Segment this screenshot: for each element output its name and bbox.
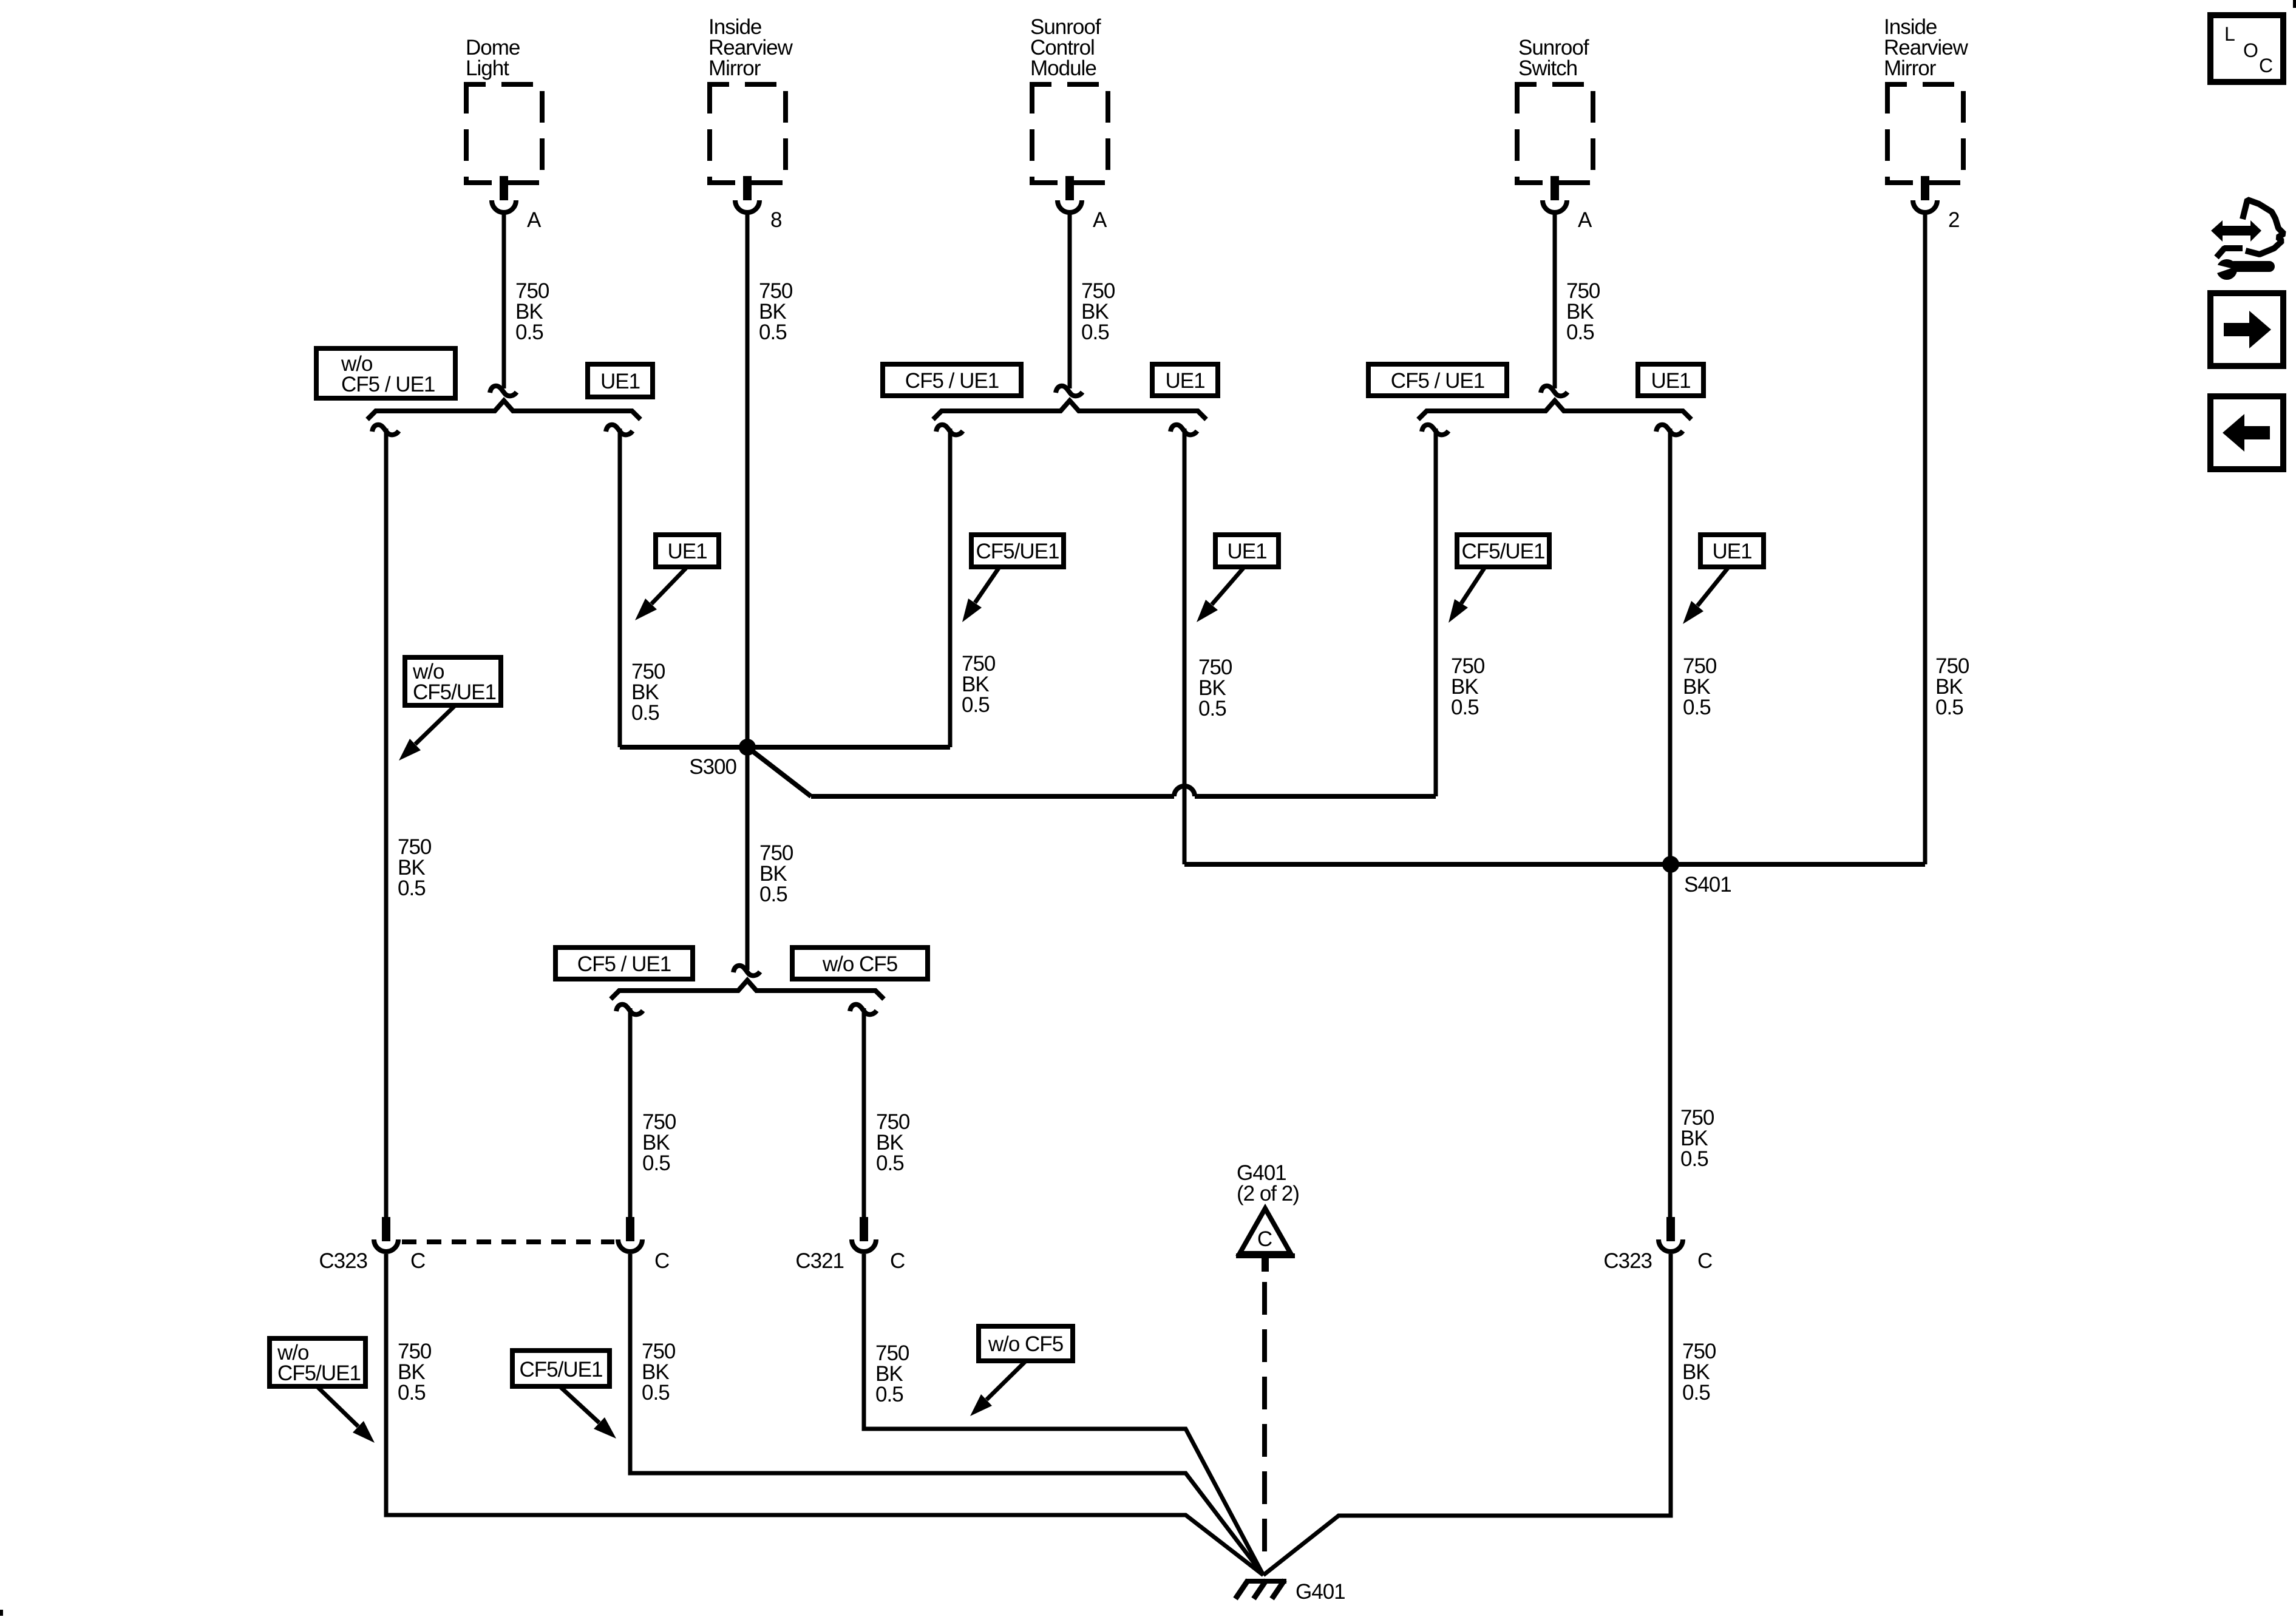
svg-text:0.5: 0.5 [759,320,787,344]
wire junction line from diagonal to SS left branch with hop over SCM right branch [811,786,1436,796]
svg-text:0.5: 0.5 [631,701,659,725]
label 750 BK 0.5 on SCM right branch [1198,656,1232,720]
option box CF5 / UE1 (split2 left) [555,947,693,979]
connector pin 8 of Inside Rearview Mirror [735,176,781,232]
svg-text:A: A [527,208,542,232]
wire Dome Light left branch down to C323 [384,429,389,1217]
hook of SCM right branch [1170,425,1197,435]
options brace under Dome Light [367,401,640,419]
svg-text:UE1: UE1 [1712,540,1751,563]
wire 750 BK 0.5 from Dome Light pin A [504,214,549,388]
wire SS left branch down to junction line [1434,429,1438,796]
label 750 BK 0.5 below S300 [759,841,793,906]
wire from Dome Light right branch to SCM left branch through S300 [620,745,950,750]
label 750 BK 0.5 on SCM left branch [962,652,996,717]
connector pin A of Sunroof Control Module [1058,176,1107,232]
callout box CF5/UE1 pointing to SS left branch [1449,535,1549,623]
svg-text:C: C [654,1249,669,1273]
splice S401 [1662,856,1731,897]
callout box UE1 pointing to Dome Light right branch [635,535,719,620]
svg-text:0.5: 0.5 [1198,697,1226,720]
hook of split2 left branch [616,1005,643,1015]
wire 750 BK 0.5 from Inside Rearview Mirror pin 2 down to S401 line [1925,214,1969,864]
svg-text:CF5 / UE1: CF5 / UE1 [341,373,435,396]
svg-text:0.5: 0.5 [759,883,787,906]
label 750 BK 0.5 on SS left branch [1451,654,1485,719]
svg-text:CF5 / UE1: CF5 / UE1 [905,369,999,393]
label 750 BK 0.5 on SS right branch [1683,654,1717,719]
navigation box arrow left [2210,396,2283,469]
wire diagonal from S300 to junction line [747,747,811,796]
svg-text:w/o CF5: w/o CF5 [988,1332,1063,1356]
svg-text:C: C [1697,1249,1712,1273]
svg-text:0.5: 0.5 [515,320,543,344]
wire 750 BK 0.5 from Sunroof Control Module pin A [1070,214,1115,388]
svg-text:0.5: 0.5 [1451,696,1479,719]
callout box w/o CF5/UE1 pointing to Dome Light left branch [399,657,501,761]
wire SCM left branch down to S300 line [948,429,953,747]
svg-text:w/o CF5: w/o CF5 [822,952,897,976]
svg-text:A: A [1093,208,1107,232]
wire Dome Light right branch down to S300 line [618,429,622,747]
svg-text:CF5/UE1: CF5/UE1 [277,1361,361,1385]
option box w/o CF5 / UE1 (Dome Light left) [316,348,455,398]
svg-text:CF5/UE1: CF5/UE1 [413,680,496,704]
options brace under Sunroof Control Module [933,401,1206,419]
callout box w/o CF5/UE1 pointing to bottom left wire [270,1338,375,1443]
svg-text:CF5/UE1: CF5/UE1 [1462,540,1545,563]
option box UE1 (SCM right) [1152,364,1218,396]
hook at bottom of Sunroof Switch wire [1541,386,1567,396]
component Dome Light (dashed box) [466,36,542,183]
label 750 BK 0.5 on Dome Light left branch [398,835,432,900]
svg-text:C323: C323 [319,1249,367,1273]
connector C323 right [1603,1217,1712,1273]
component Inside Rearview Mirror right (dashed box) [1884,15,1969,183]
option box CF5 / UE1 (SCM left) [883,364,1021,396]
svg-text:C: C [1257,1227,1272,1251]
option box w/o CF5 (split2 right) [792,947,928,979]
ground reference triangle G401 (2 of 2) [1236,1161,1299,1272]
svg-text:0.5: 0.5 [1683,696,1711,719]
wire SCM right branch down to S401 line [1183,429,1187,864]
svg-text:Switch: Switch [1518,56,1577,80]
option box UE1 (Dome Light right) [588,364,653,397]
label 750 BK 0.5 below middle connector [642,1340,676,1405]
connector pin 2 of Inside Rearview Mirror [1913,176,1959,232]
wire SS right branch down through S401 to C323 [1668,429,1673,1217]
svg-text:C: C [890,1249,905,1273]
callout box CF5/UE1 pointing to SCM left branch [962,535,1064,622]
label 750 BK 0.5 on Dome Light right branch [631,660,665,725]
wire middle connector bottom run to ground [630,1254,1263,1575]
hook at bottom of Dome Light wire [490,386,517,396]
svg-text:0.5: 0.5 [398,1381,426,1405]
component location icon (door with arrow and wrench) [2209,200,2284,280]
wire split2 right branch down to C321 [862,1008,866,1217]
svg-text:C321: C321 [795,1249,844,1273]
connector pin A of Sunroof Switch [1543,176,1592,232]
svg-text:0.5: 0.5 [876,1151,904,1175]
svg-text:CF5 / UE1: CF5 / UE1 [1391,369,1484,393]
hook of SS left branch [1422,425,1449,435]
svg-text:0.5: 0.5 [1680,1147,1708,1171]
hook of SCM left branch [936,425,963,435]
options brace under S300 wire [611,980,884,999]
svg-text:0.5: 0.5 [642,1151,670,1175]
component Sunroof Switch (dashed box) [1517,36,1593,183]
wire split2 left branch down to connector [628,1008,633,1217]
svg-text:S401: S401 [1684,873,1731,897]
svg-text:Module: Module [1030,56,1096,80]
svg-text:S300: S300 [689,755,736,779]
svg-text:0.5: 0.5 [1935,696,1963,719]
svg-text:UE1: UE1 [1227,540,1266,563]
svg-text:Light: Light [466,56,509,80]
wire S401 horizontal line from SCM right branch to Inside Rearview Mirror wire [1184,862,1925,867]
options brace under Sunroof Switch [1418,401,1691,419]
hook of Dome Light left branch [372,425,399,435]
component Sunroof Control Module (dashed box) [1030,15,1108,183]
callout box CF5/UE1 pointing to bottom middle wire [512,1351,616,1439]
splice S300 [689,739,756,779]
dashed wire from G401 triangle to ground [1262,1282,1267,1562]
hook of split2 right branch [850,1005,877,1015]
label 750 BK 0.5 below C321 [875,1341,909,1406]
svg-text:(2 of 2): (2 of 2) [1237,1182,1299,1205]
svg-text:UE1: UE1 [667,540,707,563]
label 750 BK 0.5 on split2 right branch [876,1110,910,1175]
option box UE1 (SS right) [1638,364,1703,396]
callout box w/o CF5 pointing to C321 bottom wire [970,1326,1073,1416]
svg-text:C323: C323 [1603,1249,1652,1273]
hook at bottom of S300 wire [733,966,760,976]
option box CF5 / UE1 (SS left) [1368,364,1507,396]
svg-text:O: O [2243,39,2258,61]
hook of Dome Light right branch [606,425,633,435]
svg-text:CF5 / UE1: CF5 / UE1 [577,952,671,976]
ground G401 symbol [1235,1580,1345,1604]
label 750 BK 0.5 on split2 left branch [642,1110,676,1175]
svg-text:0.5: 0.5 [962,693,990,717]
svg-text:UE1: UE1 [1165,369,1204,393]
dashed link between C323 and middle connector [402,1239,614,1244]
svg-text:CF5/UE1: CF5/UE1 [976,540,1059,563]
label 750 BK 0.5 below S401 [1680,1106,1714,1171]
callout box UE1 pointing to SS right branch [1683,535,1764,624]
wire C323 right bottom run to ground [1263,1254,1671,1575]
LOC legend box [2210,15,2283,82]
navigation box arrow right [2210,293,2283,366]
svg-text:C: C [410,1249,425,1273]
svg-text:0.5: 0.5 [1566,320,1594,344]
svg-text:G401: G401 [1296,1580,1345,1604]
callout box UE1 pointing to SCM right branch [1197,535,1279,622]
svg-text:C: C [2259,55,2272,76]
svg-text:0.5: 0.5 [1081,320,1109,344]
svg-text:UE1: UE1 [1651,369,1690,393]
svg-text:L: L [2224,23,2235,45]
label 750 BK 0.5 below C323 right [1682,1340,1716,1405]
wire C321 bottom run to ground [864,1254,1263,1575]
label 750 BK 0.5 below C323 left [398,1340,432,1405]
svg-text:Mirror: Mirror [708,56,761,80]
svg-text:2: 2 [1948,208,1959,232]
wire 750 BK 0.5 from Sunroof Switch pin A [1555,214,1600,388]
svg-text:Mirror: Mirror [1884,56,1937,80]
connector pin A of Dome Light [492,176,542,232]
connector C321 [795,1217,905,1273]
connector C (middle, split2 left) [618,1217,669,1273]
hook at bottom of Sunroof Control Module wire [1056,386,1082,396]
connector C323 left [319,1217,425,1273]
svg-text:A: A [1578,208,1592,232]
svg-text:UE1: UE1 [600,370,640,393]
wire 750 BK 0.5 from Inside Rearview Mirror pin 8 down to S300 [747,214,793,970]
wire C323 left branch bottom run to ground [386,1254,1263,1575]
svg-text:0.5: 0.5 [875,1383,903,1406]
svg-text:0.5: 0.5 [1682,1381,1710,1405]
svg-text:CF5/UE1: CF5/UE1 [520,1358,603,1381]
svg-text:0.5: 0.5 [642,1381,670,1405]
component Inside Rearview Mirror left (dashed box) [708,15,793,183]
svg-text:8: 8 [770,208,781,232]
hook of SS right branch [1656,425,1683,435]
svg-text:0.5: 0.5 [398,876,426,900]
